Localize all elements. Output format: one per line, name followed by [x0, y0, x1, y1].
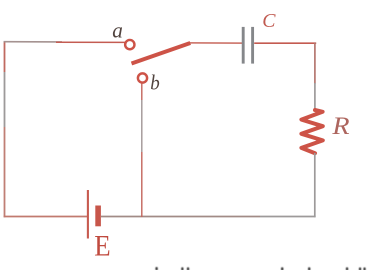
node a: switch contact circle [125, 40, 134, 49]
wire: left vertical bottom segment (rose) [4, 127, 6, 217]
label R [331, 113, 349, 140]
wire: node b vertical lower segment (red) [141, 152, 143, 217]
label C [262, 10, 276, 32]
battery E long plate (positive) [87, 190, 89, 239]
wire: node b vertical upper segment (red) [141, 83, 143, 100]
wire: top horizontal to switch terminal a (red) [56, 41, 126, 43]
svg-text:b: b [150, 71, 160, 95]
wire: bottom horizontal left of battery (rose red) [4, 216, 87, 218]
capacitor C right plate [251, 27, 254, 64]
wire: bottom horizontal right segment (gray) [260, 216, 316, 218]
label b [150, 71, 160, 95]
resistor R zigzag [301, 110, 322, 153]
battery E short thick plate (negative) [95, 206, 101, 227]
wire: left vertical middle segment (gray) [4, 72, 6, 127]
faint cropped caption text tips at bottom edge [155, 267, 365, 270]
wire: switch pivot to capacitor (red) [190, 42, 242, 44]
svg-text:C: C [262, 10, 276, 32]
wire: right vertical to resistor (gray) [314, 83, 316, 110]
wire: right vertical below resistor (gray) [314, 153, 316, 217]
node b: switch contact circle [138, 73, 147, 82]
svg-text:E: E [94, 230, 110, 263]
label E [94, 230, 110, 263]
capacitor C left plate [242, 27, 245, 64]
wire: capacitor to top-right corner (red) [254, 42, 316, 44]
wire: top horizontal left part (warm gray) [4, 41, 62, 43]
wire: node b vertical middle segment (gray) [141, 100, 143, 152]
svg-text:R: R [331, 113, 349, 140]
wire: bottom horizontal middle segment (gray-brown) [101, 216, 260, 218]
wire: left vertical top segment (red) [4, 42, 6, 73]
wire: right vertical upper segment (red) [314, 42, 316, 83]
svg-text:a: a [112, 17, 123, 42]
label a [112, 17, 123, 42]
switch blade S [132, 43, 191, 64]
